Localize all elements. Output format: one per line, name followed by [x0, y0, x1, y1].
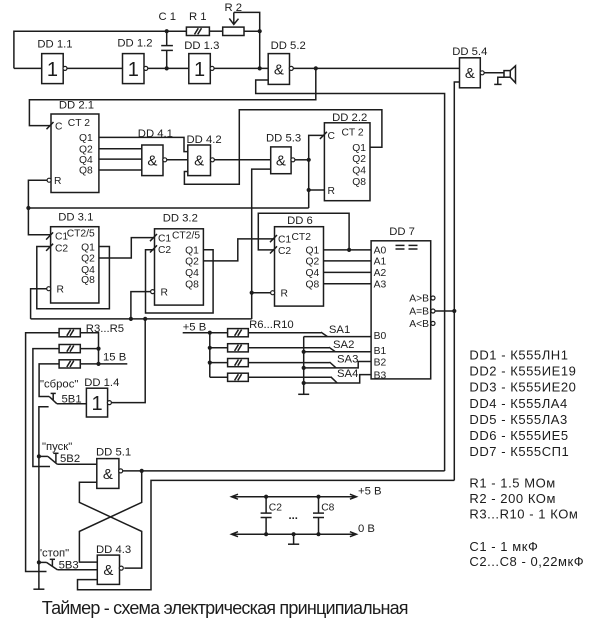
button SB2 — [39, 453, 80, 465]
svg-text:&: & — [147, 153, 157, 170]
svg-text:A2: A2 — [374, 268, 387, 279]
wire R6 right to SA1 — [248, 332, 321, 334]
svg-text:DD6 - К555ИЕ5: DD6 - К555ИЕ5 — [469, 428, 568, 443]
svg-text:CT2/5: CT2/5 — [67, 228, 95, 239]
svg-text:С2...С8 - 0,22мкФ: С2...С8 - 0,22мкФ — [469, 554, 584, 569]
svg-text:C2: C2 — [269, 503, 282, 514]
node on DD1.3 output row — [258, 66, 262, 70]
svg-text:SA1: SA1 — [329, 324, 350, 336]
svg-text:CT 2: CT 2 — [68, 118, 90, 129]
wire A=B output to vertical — [435, 310, 454, 312]
capacitor C1 — [159, 11, 177, 68]
svg-text:DD 5.1: DD 5.1 — [96, 446, 131, 458]
speaker — [504, 66, 516, 83]
svg-text:DD 2.1: DD 2.1 — [59, 100, 94, 112]
wire R3 left to SB3 lower contact — [26, 333, 60, 572]
svg-text:DD 1.4: DD 1.4 — [84, 377, 119, 389]
node SB3 ground junction — [37, 560, 41, 564]
svg-text:A1: A1 — [374, 257, 387, 268]
svg-text:SA4: SA4 — [337, 368, 358, 380]
wire DD6 Q1 to DD7 A0 — [324, 249, 372, 251]
wire R5 right and 15V stub — [80, 363, 127, 365]
wire SB2 to DD5.1 — [57, 463, 97, 465]
node SB2 ground junction — [37, 454, 41, 458]
svg-text:Q4: Q4 — [185, 268, 199, 279]
wire DD1.4 output to reset rail — [111, 319, 145, 403]
node C1 bottom junction — [165, 66, 169, 70]
switch SA2 — [329, 347, 336, 352]
node R6 junction — [208, 331, 212, 335]
nand DD4.3 — [96, 544, 131, 585]
wire R1 to R2 — [209, 30, 222, 32]
node ground junction — [292, 532, 296, 536]
node SA2 junction — [302, 350, 306, 354]
wire +5V to R6..R9 vertical — [183, 333, 210, 378]
svg-text:DD4 - К555ЛА4: DD4 - К555ЛА4 — [469, 396, 567, 411]
node C8 junctions — [316, 495, 320, 499]
wire DD6 Q8 to A3 — [324, 283, 372, 285]
wire R4 right — [80, 348, 98, 350]
svg-text:&: & — [465, 65, 475, 82]
nand DD5.3 — [266, 133, 301, 174]
switch SA4 — [331, 377, 338, 383]
svg-text:DD 6: DD 6 — [287, 215, 313, 227]
nand DD5.2 — [268, 40, 306, 85]
node rail DD3.2 R junction — [129, 317, 133, 321]
svg-text:Q8: Q8 — [79, 166, 93, 177]
wire DD6 R input — [252, 292, 271, 294]
wire DD1.1 to DD1.2 — [67, 67, 123, 69]
svg-text:&: & — [274, 61, 284, 78]
wire DD2.2 R input — [309, 189, 325, 191]
svg-text:5В2: 5В2 — [60, 453, 80, 465]
node R2 right junction — [258, 29, 262, 33]
svg-text:Q4: Q4 — [79, 155, 93, 166]
svg-text:DD 4.1: DD 4.1 — [138, 128, 173, 140]
wire long line to DD2.2 area — [28, 207, 308, 209]
wire DD5.4 lower input from A=B vertical — [454, 82, 459, 480]
svg-text:15 В: 15 В — [103, 352, 126, 364]
wire R3 right to 15V vertical — [80, 333, 98, 364]
svg-text:DD2 - К555ИЕ19: DD2 - К555ИЕ19 — [469, 364, 576, 379]
wire vertical DD2.2 C/R — [309, 135, 325, 208]
wire DD4.3 third input loop to A=B line — [78, 480, 455, 589]
counter DD2.2 — [320, 112, 370, 201]
wire SB1 to DD1.4 — [57, 403, 87, 405]
svg-text:C: C — [55, 121, 63, 132]
node DD2.2 R junction — [307, 188, 311, 192]
wire SB3 to DD4.3 — [57, 569, 97, 571]
svg-text:1: 1 — [128, 59, 139, 81]
node DD5.2 output junction — [314, 66, 318, 70]
svg-text:&: & — [103, 466, 113, 483]
node R8 junction — [208, 361, 212, 365]
inverter DD1.3 — [184, 40, 219, 83]
resistor R8 — [228, 359, 249, 367]
svg-text:Q8: Q8 — [185, 279, 199, 290]
wire R9 right to SA4 — [248, 376, 330, 378]
ground at speaker — [494, 77, 504, 84]
svg-text:DD 5.2: DD 5.2 — [271, 40, 306, 52]
svg-text:CT 2: CT 2 — [342, 128, 364, 139]
wire DD2.1 Q2 — [99, 148, 142, 150]
svg-text:C1: C1 — [278, 235, 291, 246]
svg-text:DD 3.1: DD 3.1 — [58, 212, 93, 224]
wire clock to DD2.1 C — [29, 68, 315, 125]
svg-text:Q4: Q4 — [352, 166, 366, 177]
wire R5 left to SB1 upper contact — [39, 364, 59, 397]
nand DD5.4 — [452, 46, 487, 88]
node R7 junction — [208, 346, 212, 350]
rail 0V with arrows — [232, 523, 375, 537]
svg-text:C1: C1 — [158, 234, 171, 245]
wire reset rail — [31, 318, 252, 320]
node rail DD1.4 output junction — [143, 317, 147, 321]
svg-text:SA2: SA2 — [333, 339, 354, 351]
switch SA1 — [321, 332, 328, 337]
svg-text:DD5 - К555ЛА3: DD5 - К555ЛА3 — [469, 412, 567, 427]
wire R6 left — [210, 332, 228, 334]
node R4 15V junction — [96, 347, 100, 351]
svg-text:R: R — [328, 186, 335, 197]
capacitor C8 — [313, 497, 335, 535]
wire DD5.2 output to DD5.4 — [293, 67, 459, 69]
svg-text:+5 В: +5 В — [183, 321, 207, 333]
counter DD6 — [270, 215, 324, 306]
wire SA common vertical to ground — [303, 337, 305, 395]
node SA4 junction — [302, 381, 306, 385]
svg-text:DD1 - К555ЛН1: DD1 - К555ЛН1 — [469, 348, 568, 363]
svg-text:R: R — [161, 287, 168, 298]
wire DD5.4 output to speaker — [484, 72, 504, 74]
svg-text:1: 1 — [47, 59, 58, 81]
wire DD5.3 lower input from DD6 R line — [252, 169, 271, 319]
svg-text:Q2: Q2 — [81, 254, 95, 265]
resistor R3 — [59, 329, 80, 337]
wire R7 right to SA2 — [248, 347, 329, 349]
svg-text:C2: C2 — [158, 245, 171, 256]
svg-text:CT2/5: CT2/5 — [172, 230, 200, 241]
node DD6 R junction — [250, 291, 254, 295]
counter DD3.1 — [46, 212, 99, 303]
wire B3 with jog — [304, 375, 371, 383]
svg-text:&: & — [103, 562, 113, 579]
wire DD6 Q1 to C2 loop — [258, 213, 349, 250]
node long reset-line junction — [26, 206, 30, 210]
button SB1 — [49, 393, 81, 405]
resistor R7 — [228, 344, 249, 352]
svg-text:Q8: Q8 — [305, 280, 319, 291]
resistor R9 — [228, 373, 249, 381]
svg-text:Таймер - схема электрическая п: Таймер - схема электрическая принципиаль… — [42, 598, 408, 618]
svg-text:R: R — [54, 176, 61, 187]
wire B0 — [304, 336, 371, 338]
wire R8 right to SA3 — [248, 362, 329, 364]
svg-text:Q8: Q8 — [81, 275, 95, 286]
svg-text:Q1: Q1 — [79, 133, 93, 144]
svg-text:R6...R10: R6...R10 — [249, 319, 294, 331]
svg-text:DD 7: DD 7 — [389, 226, 415, 238]
nand DD4.2 — [187, 134, 222, 176]
svg-text:R 1: R 1 — [189, 11, 207, 23]
svg-text:Q2: Q2 — [185, 257, 199, 268]
svg-text:SA3: SA3 — [337, 353, 358, 365]
svg-text:B2: B2 — [374, 357, 387, 368]
svg-text:DD 5.4: DD 5.4 — [452, 46, 487, 58]
wire latch cross A: DD4.3 out to DD5.1 input — [79, 482, 141, 568]
button SB3 — [39, 559, 79, 571]
node DD5.1 output junction — [140, 469, 144, 473]
parts list R — [469, 476, 578, 522]
wire R7 left — [210, 347, 228, 349]
parts list C — [469, 539, 584, 569]
wire DD1.2 to DD1.3 — [148, 67, 189, 69]
wire latch cross B: DD5.1 out to DD4.3 input — [79, 471, 141, 562]
nand DD5.1 — [96, 446, 131, 488]
node C2 junctions — [264, 495, 268, 499]
svg-text:R: R — [281, 289, 288, 300]
wire DD3.2 Q1 to C2 loop — [146, 250, 214, 313]
svg-text:Q2: Q2 — [305, 257, 319, 268]
svg-text:DD7 - К555СП1: DD7 - К555СП1 — [469, 444, 569, 459]
svg-text:"сброс": "сброс" — [40, 379, 78, 391]
svg-text:B3: B3 — [374, 370, 387, 381]
ground at 0V rail — [288, 534, 299, 544]
svg-text:DD 5.3: DD 5.3 — [266, 133, 301, 145]
node A=B junction — [452, 309, 456, 313]
resistor R4 — [59, 345, 80, 353]
svg-text:B1: B1 — [374, 346, 387, 357]
inverter DD1.1 — [37, 38, 72, 83]
svg-text:A<B: A<B — [409, 319, 429, 330]
wire DD3.1 Q2 to DD3.2 C1 — [99, 238, 155, 258]
ground SA bank — [298, 393, 309, 395]
svg-text:DD 1.1: DD 1.1 — [37, 38, 72, 50]
svg-text:R2 - 200 КОм: R2 - 200 КОм — [469, 491, 556, 506]
svg-text:DD 1.3: DD 1.3 — [184, 40, 219, 52]
svg-text:DD3 - К555ИЕ20: DD3 - К555ИЕ20 — [469, 380, 576, 395]
inverter DD1.2 — [117, 38, 152, 84]
svg-text:C8: C8 — [321, 503, 334, 514]
node R5 15V junction — [96, 362, 100, 366]
svg-text:0 В: 0 В — [358, 523, 375, 535]
wire DD4.2 third input loop from DD2.2 Q1 — [184, 110, 382, 184]
wire B2 with jog — [304, 362, 371, 368]
wire R2 to node — [244, 30, 260, 32]
capacitor C2 — [261, 497, 283, 535]
wire top to R1 — [167, 30, 187, 32]
svg-text:C1: C1 — [55, 231, 68, 242]
svg-text:C2: C2 — [55, 243, 68, 254]
wire DD5.2 lower input feedback from DD5.1 output — [256, 80, 445, 471]
svg-text:C: C — [328, 131, 336, 142]
svg-text:A>B: A>B — [409, 294, 429, 305]
wire into DD1.1 — [14, 67, 42, 69]
svg-text:...: ... — [289, 510, 298, 522]
wire DD2.1 Q1 to DD4.2 — [99, 137, 188, 151]
svg-text:DD 1.2: DD 1.2 — [117, 38, 152, 50]
wire DD6 Q4 to A2 — [324, 271, 372, 273]
svg-text:1: 1 — [194, 59, 205, 81]
wire feedback left vertical+top — [14, 31, 167, 68]
switch SA3 — [330, 362, 337, 368]
wire DD3.2 Q2 to DD6 C1 — [203, 239, 274, 261]
svg-text:Q2: Q2 — [352, 154, 366, 165]
wire DD2.1 Q8 — [99, 169, 142, 171]
wire DD5.3 out to DD2.2 vertical — [295, 159, 309, 161]
svg-text:Q1: Q1 — [305, 246, 319, 257]
svg-text:&: & — [194, 153, 204, 170]
svg-text:R: R — [57, 285, 64, 296]
wire DD4.2 out to DD5.3 — [214, 159, 271, 161]
svg-text:DD 4.2: DD 4.2 — [187, 134, 222, 146]
svg-text:Q1: Q1 — [81, 242, 95, 253]
svg-text:Q2: Q2 — [79, 144, 93, 155]
comparator DD7 — [371, 226, 435, 382]
svg-text:DD 2.2: DD 2.2 — [332, 112, 367, 124]
ground bottom left — [33, 588, 44, 590]
node SA3 junction — [302, 366, 306, 370]
svg-text:A0: A0 — [374, 246, 387, 257]
wire DD4.1 out to DD4.2 — [167, 159, 188, 161]
node C1 top junction — [165, 29, 169, 33]
wire R8 left — [210, 362, 228, 364]
svg-text:CT2: CT2 — [292, 232, 312, 243]
svg-text:C 1: C 1 — [159, 11, 177, 23]
svg-text:"пуск": "пуск" — [42, 441, 72, 453]
svg-text:Q1: Q1 — [352, 143, 366, 154]
node DD6 Q1/A0 junction — [347, 248, 351, 252]
svg-text:C2: C2 — [278, 246, 291, 257]
resistor R5 — [59, 360, 80, 368]
svg-text:"стоп": "стоп" — [38, 547, 69, 559]
svg-text:R3...R10 - 1 КОм: R3...R10 - 1 КОм — [469, 507, 578, 522]
svg-text:Q8: Q8 — [352, 177, 366, 188]
svg-text:R1 - 1.5 МОм: R1 - 1.5 МОм — [469, 476, 555, 491]
counter DD2.1 — [47, 100, 99, 193]
wire DD5.1 output to DD5.2 feedback vertical — [123, 470, 445, 472]
wire DD2.1 Q4 — [99, 158, 142, 160]
resistor R6 — [228, 329, 249, 337]
svg-text:С1 - 1 мкФ: С1 - 1 мкФ — [469, 539, 538, 554]
wire DD1.3 to DD5.2 — [214, 67, 268, 69]
resistor R2 (trimmer) — [223, 2, 260, 36]
inverter DD1.4 — [84, 377, 119, 417]
svg-text:Q1: Q1 — [185, 245, 199, 256]
svg-text:1: 1 — [91, 393, 102, 415]
svg-text:DD 3.2: DD 3.2 — [163, 213, 198, 225]
svg-text:+5 В: +5 В — [358, 486, 382, 498]
svg-text:A3: A3 — [374, 280, 387, 291]
wire DD2.1 R input — [28, 180, 51, 235]
node DD5.3 output junction — [307, 158, 311, 162]
svg-text:A=B: A=B — [409, 307, 429, 318]
counter DD3.2 — [150, 213, 203, 306]
rail +5V with arrows — [232, 486, 382, 500]
wire R4 left to SB2 lower contact — [33, 349, 59, 467]
resistor R1 — [186, 11, 209, 36]
svg-text:B0: B0 — [374, 331, 387, 342]
nand DD4.1 — [138, 128, 173, 175]
wire B1 — [304, 351, 371, 353]
wire DD6 Q2 to A1 — [324, 260, 372, 262]
wire DD3.1 R to reset rail — [31, 289, 47, 319]
svg-text:&: & — [276, 153, 286, 170]
wire DD3.1 Q1 to C2 loop — [37, 247, 110, 309]
wire SB1 lower contact / ground line start — [39, 407, 49, 589]
parts list DD — [469, 348, 576, 460]
wire DD3.2 R to reset rail — [131, 292, 151, 319]
wire R9 left — [210, 376, 228, 378]
svg-text:DD 4.3: DD 4.3 — [96, 544, 131, 556]
wire node down to output row — [259, 31, 261, 68]
svg-text:Q4: Q4 — [305, 268, 319, 279]
